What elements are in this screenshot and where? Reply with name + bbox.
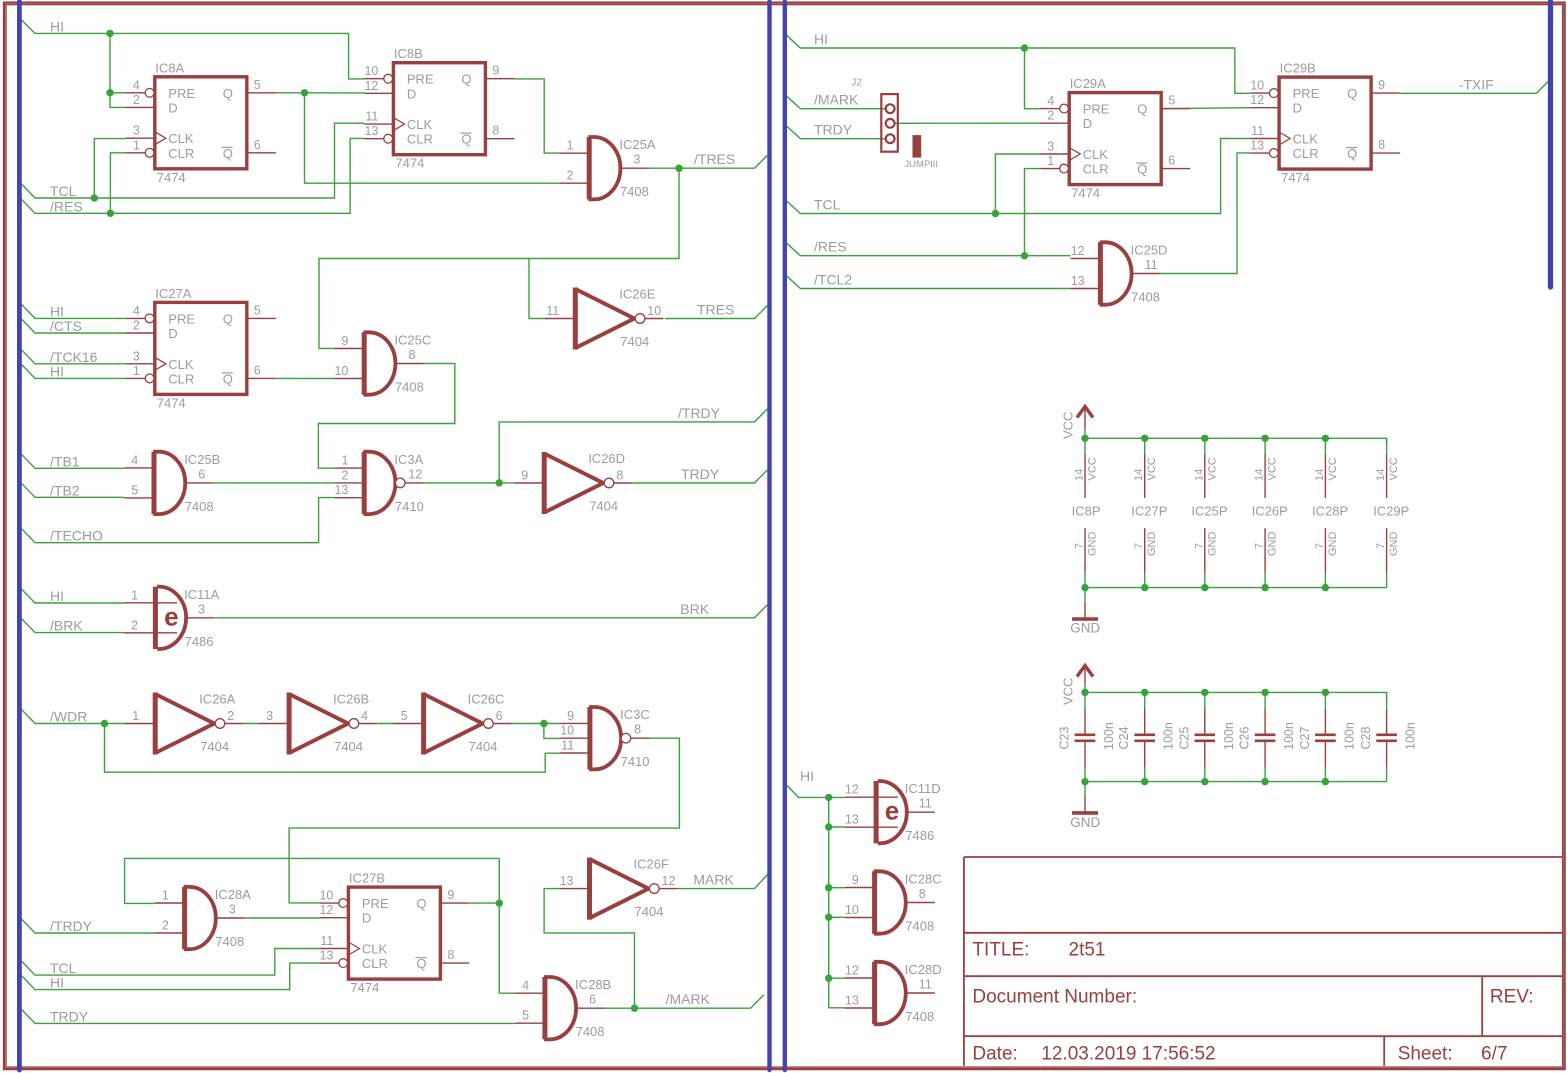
svg-text:IC29P: IC29P (1373, 504, 1409, 519)
gate IC28A 7408 (155, 887, 251, 949)
svg-text:IC25D: IC25D (1131, 243, 1168, 258)
wire VCC rail stub IC25P (1204, 438, 1206, 453)
svg-text:1: 1 (162, 889, 169, 903)
wire TCL up to IC29A CLK (995, 154, 1040, 214)
svg-text:D: D (1293, 101, 1302, 116)
svg-text:5: 5 (1168, 94, 1175, 108)
supply part IC29P VCC pin 14 (1386, 454, 1388, 498)
svg-text:IC28A: IC28A (215, 887, 251, 902)
svg-text:13: 13 (1071, 274, 1085, 288)
inverter IC26C 7404 (394, 692, 512, 755)
svg-text:10: 10 (334, 364, 348, 378)
svg-text:VCC: VCC (1388, 457, 1400, 480)
svg-text:100n: 100n (1282, 722, 1296, 750)
svg-text:12: 12 (364, 79, 378, 93)
wire net /TRDY to IC28A pin2 (22, 919, 155, 933)
svg-text:6/7: 6/7 (1481, 1043, 1507, 1064)
svg-text:9: 9 (521, 469, 528, 483)
junction VCC rail col IC25P (1201, 435, 1208, 442)
svg-text:13: 13 (319, 949, 333, 963)
wire VCC rail stub IC28P (1324, 438, 1326, 453)
junction VCC rail col IC26P (1261, 435, 1268, 442)
svg-text:4: 4 (131, 453, 138, 467)
capacitor C24 100n (1134, 708, 1155, 767)
wire IC26D out TRDY to bus bar (632, 470, 767, 483)
wire IC27B Q vertical (498, 858, 500, 993)
svg-text:10: 10 (364, 64, 378, 78)
wire VCC stub to C24 (1144, 692, 1146, 708)
svg-text:/TB1: /TB1 (50, 453, 80, 469)
gate IC3C 7410 (560, 707, 650, 769)
svg-text:CLR: CLR (407, 132, 433, 147)
wire net TRDY to J2 pad3 (785, 125, 888, 139)
D-flip-flop IC29B 7474 (1250, 61, 1400, 186)
svg-text:11: 11 (320, 934, 333, 948)
VCC supply symbol (power section) (1077, 407, 1093, 430)
svg-text:Q: Q (223, 86, 233, 101)
wire VCC symbol to rail (1084, 430, 1086, 439)
svg-text:7408: 7408 (576, 1024, 605, 1039)
svg-text:D: D (168, 326, 177, 341)
svg-text:IC26P: IC26P (1252, 504, 1288, 519)
svg-text:e: e (164, 601, 178, 631)
svg-text:11: 11 (1145, 258, 1158, 272)
svg-text:Q: Q (1137, 102, 1147, 117)
wire IC27A Qbar to IC25C pin10 (276, 377, 335, 379)
svg-text:D: D (1083, 116, 1092, 131)
svg-text:13: 13 (560, 874, 574, 888)
gate IC28D 7408 (845, 962, 942, 1024)
svg-text:TRDY: TRDY (681, 466, 720, 482)
svg-text:C24: C24 (1117, 727, 1131, 750)
wire C27 to GND rail (1324, 768, 1326, 782)
wire VCC stub to C25 (1204, 692, 1206, 708)
wire C23 to GND rail (1084, 768, 1086, 782)
wire VCC rail (power section) (1085, 438, 1387, 444)
svg-text:D: D (407, 86, 416, 101)
wire HI to IC11D pin12 (829, 796, 845, 798)
svg-text:4: 4 (361, 709, 368, 723)
wire net /TB2 to IC25B pin5 (22, 483, 125, 497)
svg-text:7404: 7404 (635, 904, 664, 919)
inverter IC26E 7404 (545, 287, 663, 350)
svg-text:GND: GND (1388, 532, 1400, 557)
wire VCC stub to C28 (1386, 692, 1388, 708)
junction GND rail col IC26P (1261, 584, 1268, 591)
svg-text:3: 3 (266, 709, 273, 723)
svg-text:100n: 100n (1162, 722, 1176, 750)
svg-text:Q: Q (461, 132, 471, 147)
svg-text:IC28D: IC28D (905, 962, 942, 977)
svg-text:4: 4 (1047, 94, 1054, 108)
junction HI right (1021, 44, 1028, 51)
wire VCC stub to C27 (1324, 692, 1326, 708)
svg-text:8: 8 (616, 469, 623, 483)
wire GND stub IC27P (1144, 572, 1146, 587)
wire net TRDY to IC28B pin5 (22, 1009, 516, 1023)
svg-text:Document Number:: Document Number: (972, 987, 1137, 1008)
svg-text:Date:: Date: (972, 1043, 1017, 1064)
svg-text:HI: HI (814, 31, 828, 47)
wire net /CTS to IC27A D (22, 319, 126, 333)
wire GND stub IC26P (1264, 572, 1266, 587)
junction GND rail col IC8P (1081, 584, 1088, 591)
svg-text:IC26C: IC26C (468, 692, 505, 707)
svg-text:7404: 7404 (469, 739, 498, 754)
svg-text:IC26B: IC26B (333, 692, 369, 707)
svg-text:CLR: CLR (1083, 162, 1109, 177)
supply part IC27P GND pin 7 (1144, 528, 1146, 572)
svg-text:/TRDY: /TRDY (50, 918, 93, 934)
wire VCC rail stub IC8P (1084, 438, 1086, 453)
svg-text:TCL: TCL (814, 197, 841, 213)
svg-text:IC27P: IC27P (1131, 504, 1167, 519)
junction TCL (91, 194, 98, 201)
svg-text:/WDR: /WDR (50, 709, 87, 725)
svg-text:3: 3 (198, 602, 205, 616)
wire IC29A Q to IC29B D (1161, 108, 1250, 109)
svg-text:Q: Q (223, 311, 233, 326)
junction IC26C output (540, 720, 547, 727)
svg-text:VCC: VCC (1061, 412, 1076, 439)
svg-text:13: 13 (845, 813, 859, 827)
inverter IC26B 7404 (259, 692, 377, 755)
junction /RES (107, 210, 114, 217)
svg-text:7408: 7408 (215, 934, 244, 949)
svg-text:2t51: 2t51 (1069, 939, 1106, 960)
svg-text:IC26F: IC26F (634, 857, 669, 872)
wire IC26F out MARK to bus bar (678, 875, 768, 889)
svg-text:IC25P: IC25P (1191, 504, 1227, 519)
supply part IC28P GND pin 7 (1324, 528, 1326, 572)
junction /MARK (631, 1005, 638, 1012)
D-flip-flop IC8B 7474 (364, 46, 514, 171)
svg-text:REV:: REV: (1490, 987, 1534, 1008)
wire HI down to IC8A D (110, 33, 126, 107)
svg-text:7404: 7404 (620, 334, 649, 349)
junction GND cap rail C25 (1201, 778, 1208, 785)
junction VCC cap rail C27 (1322, 689, 1329, 696)
junction HI at IC28C pin10 (825, 914, 832, 921)
wire C26 to GND rail (1264, 768, 1266, 782)
svg-text:11: 11 (561, 739, 574, 753)
svg-text:C23: C23 (1058, 727, 1072, 750)
svg-text:100n: 100n (1404, 722, 1418, 750)
svg-text:13: 13 (845, 994, 859, 1008)
capacitor C23 100n (1075, 708, 1096, 767)
connector J2 JUMPIII (881, 94, 898, 152)
junction HI rail (106, 30, 113, 37)
wire net /MARK to J2 pad1 (785, 95, 888, 109)
svg-text:CLR: CLR (168, 371, 194, 386)
wire IC25C out to IC3A pin1 (318, 364, 454, 469)
svg-text:14: 14 (1074, 469, 1086, 481)
wire IC26C out to IC3C pin9 (512, 723, 560, 725)
svg-text:PRE: PRE (1293, 86, 1320, 101)
wire IC8A Q to IC8B D (276, 92, 365, 94)
svg-text:3: 3 (1047, 140, 1054, 154)
svg-text:6: 6 (1168, 154, 1175, 168)
supply part IC26P VCC pin 14 (1264, 454, 1266, 498)
svg-text:HI: HI (800, 768, 814, 784)
svg-text:3: 3 (229, 903, 236, 917)
wire VCC rail stub IC26P (1264, 438, 1266, 453)
svg-text:7474: 7474 (1281, 170, 1310, 185)
wire IC25A out /TRES (649, 167, 755, 169)
D-flip-flop IC29A 7474 (1040, 76, 1190, 201)
svg-text:D: D (362, 911, 371, 926)
svg-text:7408: 7408 (395, 380, 424, 395)
VCC supply symbol (capacitor section) (1077, 666, 1093, 685)
wire net HI bottom right (785, 783, 829, 797)
wire IC28B out /MARK to bus bar (605, 995, 764, 1009)
svg-text:10: 10 (647, 304, 661, 318)
wire net HI to IC27B CLR (22, 963, 320, 990)
wire down to IC28B pin4 (499, 992, 515, 994)
svg-text:14: 14 (1314, 469, 1326, 481)
GND symbol (capacitor section) (1072, 796, 1098, 813)
wire HI to IC28C pin9 (829, 887, 845, 889)
svg-text:7408: 7408 (1131, 290, 1160, 305)
svg-text:1: 1 (566, 139, 573, 153)
svg-text:Q: Q (223, 146, 233, 161)
capacitor C25 100n (1195, 708, 1216, 767)
svg-text:14: 14 (1133, 469, 1145, 481)
wire IC26B out to IC26C in (377, 723, 394, 725)
wire VCC rail stub IC29P (1386, 438, 1388, 453)
wire C24 to GND rail (1144, 768, 1146, 782)
gate IC25C 7408 (334, 332, 431, 394)
svg-text:4: 4 (522, 979, 529, 993)
svg-text:11: 11 (546, 304, 559, 318)
blue bus bar middle-right (783, 2, 787, 1071)
wire IC11A out BRK to bus bar (214, 605, 767, 618)
svg-text:IC8P: IC8P (1072, 504, 1101, 519)
svg-text:9: 9 (447, 888, 454, 902)
svg-text:7404: 7404 (200, 739, 229, 754)
svg-text:VCC: VCC (1146, 457, 1158, 480)
supply part IC29P GND pin 7 (1386, 528, 1388, 572)
wire IC28A out to IC27B D (245, 917, 320, 919)
jumper shunt symbol (913, 135, 922, 158)
wire GND stub IC25P (1204, 572, 1206, 587)
wire IC8B Q to IC25A pin1 (514, 79, 559, 153)
svg-text:/TRDY: /TRDY (678, 405, 721, 421)
svg-text:IC27A: IC27A (155, 286, 191, 301)
wire VCC stub to C23 (1084, 692, 1086, 708)
svg-text:5: 5 (522, 1009, 529, 1023)
svg-text:TITLE:: TITLE: (972, 939, 1029, 960)
wire net /TCK16 to IC27A CLK (22, 350, 126, 364)
svg-text:TCL: TCL (50, 183, 77, 199)
wire /TRES down to IC25C pin9 (319, 168, 679, 348)
gate IC3A 7410 (334, 452, 424, 514)
svg-text:IC28C: IC28C (905, 872, 942, 887)
svg-text:/CTS: /CTS (50, 318, 82, 334)
junction GND cap rail C23 (1081, 778, 1088, 785)
wire net HI to IC11A pin1 (22, 589, 125, 603)
wire HI to IC11D pin13 (829, 826, 845, 828)
svg-text:PRE: PRE (407, 72, 434, 87)
svg-text:IC11D: IC11D (905, 781, 941, 796)
junction HI at IC11D pin12 (825, 794, 832, 801)
svg-text:100n: 100n (1222, 722, 1236, 750)
svg-text:PRE: PRE (1083, 102, 1110, 117)
svg-text:7474: 7474 (157, 395, 186, 410)
svg-text:5: 5 (254, 303, 261, 317)
svg-text:6: 6 (254, 363, 261, 377)
svg-text:Q: Q (416, 956, 426, 971)
svg-text:10: 10 (845, 903, 859, 917)
svg-text:Sheet:: Sheet: (1398, 1043, 1453, 1064)
svg-text:7404: 7404 (589, 499, 618, 514)
svg-text:7: 7 (1254, 543, 1266, 549)
D-flip-flop IC8A 7474 (126, 60, 276, 185)
svg-text:7486: 7486 (185, 634, 214, 649)
svg-text:4: 4 (133, 78, 140, 92)
svg-text:VCC: VCC (1087, 457, 1099, 480)
wire IC26E out TRES to bus bar (665, 306, 768, 319)
wire net TCL to IC29B CLK (785, 139, 1250, 214)
svg-text:8: 8 (447, 948, 454, 962)
svg-text:1: 1 (341, 454, 348, 468)
svg-text:7474: 7474 (395, 156, 424, 171)
junction HI at IC11D pin13 (825, 823, 832, 830)
inverter IC26A 7404 (125, 692, 243, 755)
svg-text:3: 3 (633, 153, 640, 167)
svg-text:IC28B: IC28B (575, 977, 611, 992)
svg-text:7486: 7486 (905, 828, 934, 843)
svg-text:11: 11 (365, 110, 378, 124)
svg-text:C28: C28 (1359, 727, 1373, 750)
D-flip-flop IC27A 7474 (126, 286, 276, 411)
svg-text:CLK: CLK (168, 131, 194, 146)
svg-text:CLK: CLK (1293, 132, 1319, 147)
svg-text:D: D (168, 100, 177, 115)
svg-text:7: 7 (1375, 543, 1387, 549)
junction GND rail col IC25P (1201, 584, 1208, 591)
supply part IC25P VCC pin 14 (1204, 454, 1206, 498)
svg-text:7410: 7410 (621, 754, 650, 769)
supply part IC8P VCC pin 14 (1084, 454, 1086, 498)
svg-text:7: 7 (1314, 543, 1326, 549)
svg-text:J2: J2 (851, 77, 862, 88)
svg-text:TRDY: TRDY (814, 122, 853, 138)
wire C28 to GND rail (1386, 768, 1388, 782)
svg-text:13: 13 (334, 483, 348, 497)
junction VCC rail col IC28P (1322, 435, 1329, 442)
svg-text:12: 12 (1250, 93, 1264, 107)
svg-text:IC29B: IC29B (1280, 61, 1316, 76)
svg-text:Q: Q (1347, 86, 1357, 101)
wire VCC symbol to cap rail (1084, 684, 1086, 692)
svg-text:BRK: BRK (680, 601, 709, 617)
svg-text:2: 2 (1047, 109, 1054, 123)
junction VCC cap rail C23 (1081, 689, 1088, 696)
svg-text:IC25B: IC25B (184, 452, 220, 467)
junction GND cap rail C26 (1261, 778, 1268, 785)
svg-text:IC29A: IC29A (1070, 76, 1106, 91)
svg-text:IC27B: IC27B (349, 871, 385, 886)
wire IC3A out to IC26D input (424, 482, 514, 484)
junction /WDR (101, 720, 108, 727)
svg-text:JUMPIII: JUMPIII (904, 159, 938, 170)
svg-text:MARK: MARK (693, 872, 734, 888)
svg-text:VCC: VCC (1061, 678, 1076, 705)
capacitor C27 100n (1315, 708, 1336, 767)
wire /WDR feedback to IC3C pin11 (105, 724, 561, 773)
svg-text:7408: 7408 (185, 499, 214, 514)
svg-text:IC26D: IC26D (588, 451, 625, 466)
wire TCL up to IC8A CLK (94, 139, 126, 198)
svg-text:CLR: CLR (362, 956, 388, 971)
svg-text:6: 6 (198, 467, 205, 481)
svg-text:/TCL2: /TCL2 (814, 272, 852, 288)
wire net HI top rail to IC8B PRE (22, 20, 365, 79)
svg-text:Q: Q (223, 371, 233, 386)
wire net HI to IC27A CLR (22, 364, 126, 378)
svg-text:12.03.2019 17:56:52: 12.03.2019 17:56:52 (1041, 1043, 1215, 1064)
svg-text:100n: 100n (1102, 722, 1116, 750)
wire IC27B Q to IC28A pin1 (125, 858, 500, 903)
svg-text:2: 2 (131, 618, 138, 632)
wire net TCL to IC8B CLK (22, 123, 365, 198)
wire /TRES to IC26E input (529, 259, 548, 319)
svg-text:8: 8 (919, 887, 926, 901)
wire net /RES to IC25D pin12 (785, 242, 1071, 256)
svg-text:CLR: CLR (1293, 146, 1319, 161)
svg-text:CLK: CLK (1083, 147, 1109, 162)
svg-text:1: 1 (133, 364, 140, 378)
svg-text:7408: 7408 (620, 184, 649, 199)
svg-text:7474: 7474 (350, 980, 379, 995)
svg-text:8: 8 (1378, 138, 1385, 152)
svg-text:Q: Q (1347, 146, 1357, 161)
svg-text:IC26E: IC26E (619, 287, 655, 302)
svg-text:10: 10 (319, 889, 333, 903)
junction GND rail col IC28P (1322, 584, 1329, 591)
svg-text:IC11A: IC11A (184, 587, 219, 602)
wire net /RES to IC8B CLR (22, 138, 365, 213)
svg-text:HI: HI (50, 18, 64, 34)
capacitor C26 100n (1255, 708, 1276, 767)
svg-text:7408: 7408 (905, 1009, 934, 1024)
junction HI at IC28D pin12 (825, 975, 832, 982)
blue bus bar left (17, 2, 22, 1071)
wire net /TB1 to IC25B pin4 (22, 454, 125, 468)
svg-text:3: 3 (133, 349, 140, 363)
svg-text:IC3C: IC3C (620, 707, 650, 722)
svg-text:2: 2 (133, 93, 140, 107)
svg-text:HI: HI (50, 975, 64, 991)
svg-text:2: 2 (162, 919, 169, 933)
GND symbol (power section) (1072, 602, 1098, 619)
svg-text:1: 1 (132, 709, 139, 723)
blue bus bar right (partial) (1548, 2, 1553, 288)
svg-text:7410: 7410 (395, 499, 424, 514)
svg-text:HI: HI (50, 303, 64, 319)
junction IC8A Q net (301, 89, 308, 96)
svg-text:5: 5 (131, 483, 138, 497)
svg-text:VCC: VCC (1267, 457, 1279, 480)
wire C25 to GND rail (1204, 768, 1206, 782)
wire IC26A out to IC26B in (243, 723, 260, 725)
wire HI down to IC29A PRE (1025, 48, 1041, 109)
wire cap GND rail to GND symbol (1084, 782, 1086, 796)
svg-text:/MARK: /MARK (666, 991, 711, 1007)
wire net HI to IC29B PRE (785, 34, 1250, 94)
svg-text:7474: 7474 (157, 170, 186, 185)
